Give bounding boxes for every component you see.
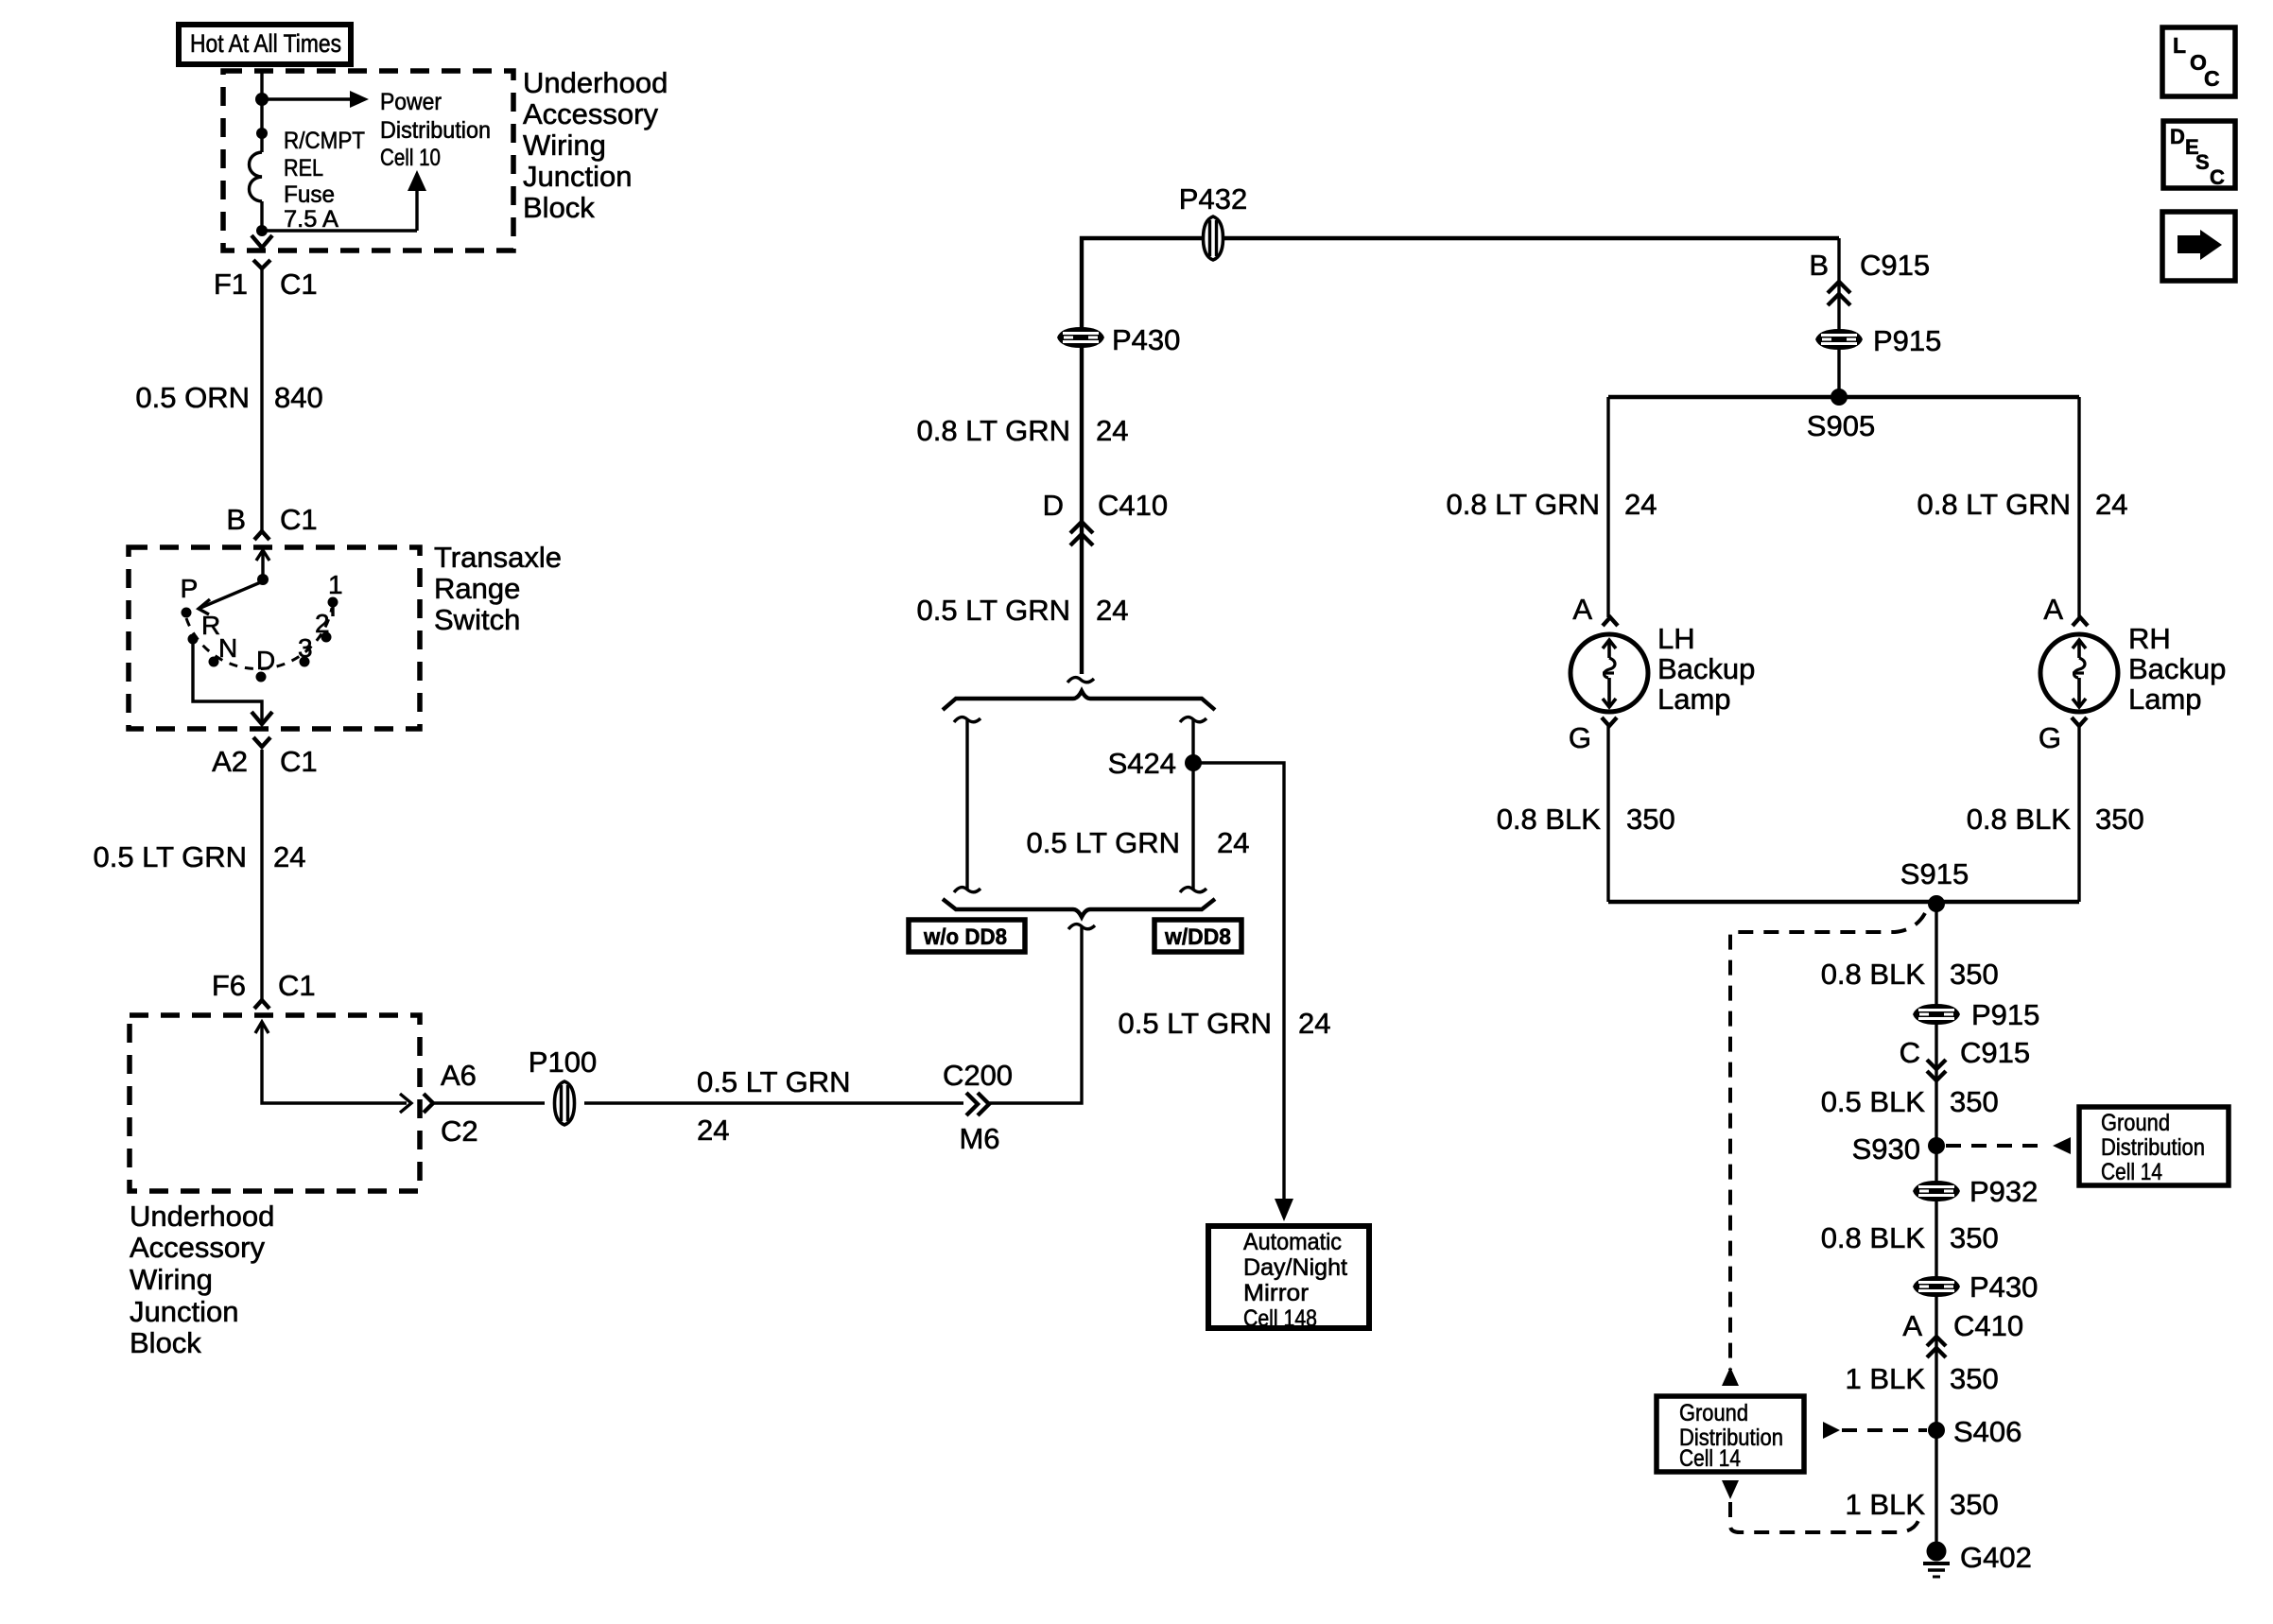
svg-text:Distribution: Distribution [2101,1134,2205,1161]
svg-text:0.8 BLK: 0.8 BLK [1821,1221,1926,1254]
svg-text:2: 2 [315,609,330,638]
svg-text:RH: RH [2128,622,2171,655]
svg-text:C1: C1 [278,969,316,1002]
svg-text:G402: G402 [1960,1541,2032,1574]
svg-text:Automatic: Automatic [1243,1229,1342,1255]
svg-text:Cell 14: Cell 14 [1679,1445,1741,1472]
svg-text:0.8 BLK: 0.8 BLK [1821,958,1926,991]
svg-text:0.5 LT GRN: 0.5 LT GRN [1118,1007,1272,1040]
svg-text:Wiring: Wiring [523,129,606,162]
svg-text:7.5 A: 7.5 A [284,206,338,233]
svg-text:0.5 ORN: 0.5 ORN [135,381,250,414]
svg-text:24: 24 [1096,594,1128,627]
svg-text:Backup: Backup [2128,652,2226,685]
svg-text:Junction: Junction [130,1295,238,1328]
svg-text:Lamp: Lamp [2128,682,2202,716]
svg-text:0.8 BLK: 0.8 BLK [1497,803,1602,836]
svg-text:24: 24 [2095,488,2127,521]
svg-text:w/o DD8: w/o DD8 [923,924,1007,950]
svg-text:P915: P915 [1873,324,1941,357]
svg-text:Range: Range [434,572,520,605]
svg-text:LH: LH [1657,622,1695,655]
svg-text:Cell 10: Cell 10 [380,145,441,171]
svg-text:P430: P430 [1969,1270,2038,1304]
svg-text:A2: A2 [212,745,248,778]
svg-text:REL: REL [284,155,323,181]
svg-text:C410: C410 [1953,1309,2023,1342]
svg-text:350: 350 [1626,803,1675,836]
svg-text:Ground: Ground [2101,1110,2170,1136]
svg-text:Block: Block [130,1326,201,1359]
svg-text:350: 350 [2095,803,2144,836]
svg-text:0.8 LT GRN: 0.8 LT GRN [1917,488,2071,521]
svg-text:C: C [2210,165,2225,189]
svg-text:840: 840 [274,381,323,414]
svg-text:0.5 LT GRN: 0.5 LT GRN [93,840,247,873]
svg-text:S: S [2195,150,2210,174]
svg-text:P: P [181,574,199,603]
svg-text:S915: S915 [1900,857,1969,890]
svg-text:Fuse: Fuse [284,181,335,208]
svg-text:A: A [1572,593,1592,626]
svg-text:A: A [1902,1309,1922,1342]
svg-text:Ground: Ground [1679,1400,1748,1426]
svg-text:0.8 LT GRN: 0.8 LT GRN [1446,488,1600,521]
svg-text:M6: M6 [959,1122,999,1155]
svg-text:Backup: Backup [1657,652,1755,685]
svg-text:C915: C915 [1860,249,1930,282]
svg-text:0.8 LT GRN: 0.8 LT GRN [916,414,1070,447]
svg-text:24: 24 [1096,414,1128,447]
svg-text:C200: C200 [943,1059,1013,1092]
svg-text:Transaxle: Transaxle [434,541,562,574]
svg-text:350: 350 [1950,1362,1999,1395]
svg-text:C: C [1900,1036,1920,1069]
svg-text:P932: P932 [1969,1175,2038,1208]
svg-text:D: D [2170,125,2185,148]
svg-text:1 BLK: 1 BLK [1846,1488,1926,1521]
svg-text:F1: F1 [214,268,248,301]
svg-text:350: 350 [1950,958,1999,991]
svg-text:C2: C2 [441,1114,478,1148]
svg-text:Power: Power [380,89,442,115]
svg-text:S424: S424 [1108,747,1176,780]
svg-text:A6: A6 [441,1059,477,1092]
svg-text:24: 24 [273,840,305,873]
svg-text:P100: P100 [529,1045,597,1079]
svg-text:0.5 BLK: 0.5 BLK [1821,1085,1926,1118]
svg-text:350: 350 [1950,1488,1999,1521]
svg-text:Junction: Junction [523,160,632,193]
svg-text:Wiring: Wiring [130,1263,213,1296]
svg-text:S905: S905 [1807,409,1875,442]
svg-text:Cell 14: Cell 14 [2101,1159,2162,1185]
svg-text:24: 24 [1298,1007,1330,1040]
svg-text:C: C [2204,66,2220,91]
svg-text:0.8 BLK: 0.8 BLK [1967,803,2072,836]
svg-text:C1: C1 [280,268,318,301]
svg-text:350: 350 [1950,1221,1999,1254]
svg-text:1 BLK: 1 BLK [1846,1362,1926,1395]
svg-text:G: G [1569,721,1591,754]
svg-text:S930: S930 [1852,1132,1920,1166]
svg-text:D: D [256,646,275,675]
svg-text:Block: Block [523,191,595,224]
svg-text:350: 350 [1950,1085,1999,1118]
svg-text:A: A [2043,593,2063,626]
svg-text:C1: C1 [280,503,318,536]
svg-text:C915: C915 [1960,1036,2030,1069]
svg-text:Accessory: Accessory [130,1231,265,1264]
svg-text:24: 24 [1217,826,1249,859]
svg-text:L: L [2173,33,2186,58]
svg-text:D: D [1043,489,1064,522]
svg-text:0.5 LT GRN: 0.5 LT GRN [1026,826,1180,859]
svg-text:w/DD8: w/DD8 [1164,924,1231,950]
svg-text:0.5 LT GRN: 0.5 LT GRN [916,594,1070,627]
svg-text:R/CMPT: R/CMPT [284,128,365,154]
svg-text:Underhood: Underhood [130,1200,274,1233]
svg-text:0.5 LT GRN: 0.5 LT GRN [697,1065,851,1098]
svg-text:C410: C410 [1098,489,1168,522]
svg-text:1: 1 [328,570,343,599]
svg-text:C1: C1 [280,745,318,778]
svg-text:Day/Night: Day/Night [1243,1254,1347,1281]
svg-text:G: G [2039,721,2061,754]
svg-text:Hot At All Times: Hot At All Times [190,29,341,58]
svg-text:3: 3 [298,633,313,663]
svg-text:24: 24 [697,1114,729,1147]
svg-text:F6: F6 [212,969,246,1002]
svg-text:Distribution: Distribution [380,117,491,144]
svg-text:P432: P432 [1179,182,1247,216]
svg-text:Switch: Switch [434,603,520,636]
svg-text:Accessory: Accessory [523,97,658,130]
svg-text:Cell 148: Cell 148 [1243,1305,1317,1332]
svg-text:B: B [226,503,246,536]
svg-text:P915: P915 [1971,998,2039,1031]
svg-text:B: B [1809,249,1829,282]
svg-text:Lamp: Lamp [1657,682,1731,716]
svg-text:P430: P430 [1112,323,1180,356]
svg-text:Underhood: Underhood [523,66,668,99]
svg-text:24: 24 [1624,488,1657,521]
svg-text:Mirror: Mirror [1243,1280,1309,1306]
svg-text:N: N [218,633,237,663]
svg-text:S406: S406 [1953,1415,2021,1448]
